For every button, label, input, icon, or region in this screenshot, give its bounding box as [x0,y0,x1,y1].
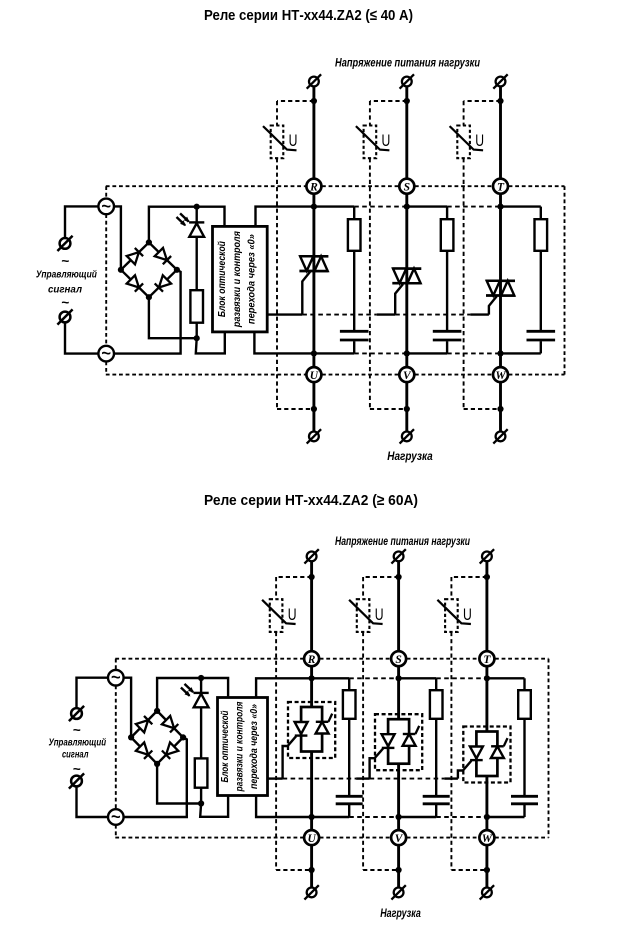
wire resistor to capacitor T [523,719,525,795]
node T input junction [484,574,490,580]
wire dashed varistor to output junction U [276,869,312,871]
thyristor module VS2 dashed box [375,714,422,770]
ac coupling circle top [108,670,124,686]
thyristor module VS2 loop [388,719,409,764]
svg-text:U: U [475,131,484,150]
svg-text:U: U [289,131,298,150]
node S snubber top junction [404,204,410,210]
wire bridge bottom to block [157,764,201,804]
wire resistor to capacitor R [348,719,350,795]
node R snubber top junction [311,204,317,210]
triac VS2 bottom bar [392,282,421,285]
terminal U load [307,888,317,898]
wire dashed varistor to output junction V [370,408,407,410]
wire snubber top branch R [314,205,354,207]
wire dashed top bus [436,677,487,679]
wire LED to resistor [200,707,202,758]
node W output junction [484,867,490,873]
diode VD2 (top-right arm) [162,716,174,728]
LED optocoupler diode [193,692,208,694]
node LED anode junction [194,204,200,210]
terminal circle T [493,179,508,194]
wire resistor to capacitor T [540,251,542,330]
triac VS1 left triangle [300,256,313,271]
varistor RU x=363 [357,599,370,632]
triac VS2 top bar [392,267,421,270]
node S input junction [404,98,410,104]
wire dashed bottom bus [436,816,487,818]
thyristor VS2a cathode bar [382,747,395,749]
svg-text:U: U [463,605,472,624]
node W snubber bottom junction [497,350,503,356]
wire dashed junction to varistor S [363,576,399,578]
wire dashed junction to varistor T [451,576,487,578]
node V snubber bottom junction [404,350,410,356]
thyristor VS3a triangle [470,747,483,759]
thyristor module VS3 dashed box [463,727,510,783]
svg-text:R: R [307,654,316,666]
varistor RU x=276 [270,599,283,632]
wire dashed varistor to output junction V [363,869,399,871]
wire gate drive segment T [470,313,489,315]
wire T phase line [499,194,502,367]
wire resistor to capacitor R [353,251,355,330]
triac VS1 right triangle [315,256,328,271]
wire dashed top bus [447,206,500,208]
LED optocoupler diode [189,221,204,223]
capacitor snubber T [527,330,556,333]
svg-text:~: ~ [101,197,111,215]
svg-text:V: V [395,833,404,845]
wire V output drop [405,382,408,431]
svg-text:развязки и контроля: развязки и контроля [232,231,243,328]
wire resistor to bottom node [200,788,202,804]
node bridge AC left [128,734,134,740]
opto control block Блок оптической развязки [217,697,267,795]
svg-text:Блок оптической: Блок оптической [220,710,231,782]
terminal U load [309,432,319,442]
svg-text:W: W [495,370,506,382]
node T input junction [497,98,503,104]
svg-text:сигнал: сигнал [62,750,89,761]
svg-text:Нагрузка: Нагрузка [387,451,433,463]
triac VS3 top bar [486,279,515,282]
svg-text:~: ~ [73,761,81,776]
wire ac bottom to bridge right corner [124,737,187,817]
wire S phase line [405,194,408,367]
thyristor VS3b anode bar [491,745,504,747]
wire resistor to capacitor S [435,719,437,795]
node V snubber bottom junction [395,814,401,820]
wire gate drive segment S [377,313,396,315]
node bridge DC bottom [154,761,160,767]
wire U output drop [310,845,313,887]
thyristor VS3b triangle [491,746,504,758]
wire T input drop [499,86,502,178]
svg-text:Реле серии НТ-хх44.ZA2 (≤ 40 А: Реле серии НТ-хх44.ZA2 (≤ 40 А) [204,7,413,24]
ac coupling circle top [98,199,114,215]
wire dashed junction to varistor T [464,100,501,102]
wire dashed varistor branch x=370 [369,101,371,126]
wire dashed varistor branch x=363 [362,577,364,599]
wire dashed bottom bus [447,352,500,354]
svg-text:U: U [288,605,297,624]
diode VD1 (left-top arm) [136,720,148,732]
svg-text:U: U [310,370,319,382]
svg-text:Напряжение питания нагрузки: Напряжение питания нагрузки [335,536,470,548]
svg-text:Управляющий: Управляющий [49,737,107,748]
thyristor module VS3 loop [476,732,497,777]
svg-text:перехода через «0»: перехода через «0» [246,234,257,324]
terminal T supply [496,77,506,87]
ac coupling circle bottom [108,809,124,825]
wire dashed varistor to output junction U [277,408,314,410]
wire dashed varistor branch x=451 [450,577,452,599]
wire capacitor to bottom bus T [523,805,525,817]
wire dashed varistor branch x=277 [276,101,278,126]
terminal S supply [394,552,404,562]
terminal R supply [307,552,317,562]
capacitor snubber S [423,795,450,798]
node T snubber top junction [484,675,490,681]
node bridge DC top [146,239,152,245]
diode VD2 (top-right arm) [155,248,167,260]
thyristor VS1b anode bar [316,721,329,723]
diode VD3 (left-bottom arm) [127,275,139,287]
svg-text:~: ~ [73,722,81,737]
wire T input drop [485,561,488,651]
thyristor VS1a cathode bar [295,734,308,736]
node LED cathode junction [198,800,204,806]
wire LED to resistor [196,237,198,290]
node R input junction [311,98,317,104]
svg-text:U: U [375,605,384,624]
wire control input 1 [76,678,108,708]
svg-text:Напряжение питания нагрузки: Напряжение питания нагрузки [335,57,480,69]
terminal control input 2 [60,312,71,323]
bridge rectifier VD1-VD4 frame [121,242,177,297]
terminal V load [402,432,412,442]
wire resistor to capacitor S [446,251,448,330]
wire snubber top branch T [487,677,525,679]
resistor snubber S [430,690,443,719]
node bridge DC top [154,708,160,714]
wire capacitor to bottom bus S [446,341,448,353]
wire R phase line [310,666,313,707]
wire snubber top branch R [312,677,350,679]
svg-text:S: S [395,654,401,666]
wire R phase line [312,194,315,367]
wire dashed bottom bus [354,352,407,354]
triac VS2 left triangle [393,269,406,284]
relay enclosure dashed box left edge [115,659,117,670]
wire thyristor VS1b gate stub [328,714,332,722]
wire block top right pin to phase R [256,678,312,697]
thyristor module VS1 loop [301,707,322,752]
relay enclosure dashed box top edge [115,658,303,660]
triac VS2 right triangle [407,269,420,284]
wire gate drive segment T [444,777,458,779]
triac VS3 left triangle [487,281,500,296]
terminal circle V [399,367,414,382]
wire S input drop [405,86,408,178]
relay enclosure dashed box left edge [105,186,107,198]
wire U output drop [312,382,315,431]
wire dashed junction to varistor R [276,576,312,578]
wire bridge top to block [157,678,228,711]
relay enclosure dashed box right edge [564,186,566,374]
triac VS3 right triangle [501,281,514,296]
LED optocoupler arrows [180,213,189,221]
terminal circle R [304,651,319,666]
terminal circle U [306,367,321,382]
svg-text:сигнал: сигнал [48,284,83,295]
wire thyristor VS3a gate [458,761,472,779]
wire dashed varistor to output junction W [464,408,501,410]
diode VD3 (left-bottom arm) [136,742,148,754]
node T snubber top junction [497,204,503,210]
wire S input drop [397,561,400,651]
wire snubber top branch S [407,205,447,207]
terminal control input 2 [71,776,82,787]
node bridge DC bottom [146,294,152,300]
terminal circle W [493,367,508,382]
wire S phase line [397,666,400,719]
node LED anode junction [198,675,204,681]
svg-text:Нагрузка: Нагрузка [380,908,421,920]
relay enclosure dashed box bottom edge [115,837,303,839]
wire block bottom right pin to bottom bus [254,332,314,354]
resistor snubber R [348,219,361,251]
wire dashed top bus [354,206,407,208]
wire block top right pin to phase R [256,207,314,227]
wire capacitor to bottom bus R [353,341,355,353]
wire control input 1 [65,206,98,238]
bridge rectifier VD1-VD4 frame [131,711,183,764]
wire V output drop [397,845,400,887]
capacitor snubber S [433,330,462,333]
triac VS1 bottom bar [299,270,328,273]
thyristor VS2b triangle [403,734,416,746]
svg-text:~: ~ [61,295,69,310]
wire ac top to bridge left corner [124,678,132,736]
resistor snubber T [518,690,531,719]
thyristor module VS1 dashed box [288,702,335,758]
terminal circle R [306,179,321,194]
wire control input 2 [65,322,98,353]
terminal S supply [402,77,412,87]
wire gate drive segment S [356,777,370,779]
node R input junction [308,574,314,580]
thyristor VS1a triangle [295,722,308,734]
node S snubber top junction [395,675,401,681]
wire ac top to bridge left corner [114,206,121,267]
node bridge AC right [180,734,186,740]
wire control input 2 [76,786,108,817]
terminal circle S [391,651,406,666]
wire capacitor to bottom bus R [348,805,350,817]
wire capacitor to bottom bus S [435,805,437,817]
terminal circle T [479,651,494,666]
capacitor snubber R [340,330,369,333]
wire R input drop [312,86,315,178]
resistor control branch [190,290,203,323]
wire LED branch top [196,206,198,222]
wire R input drop [310,561,313,651]
svg-text:V: V [403,370,412,382]
capacitor snubber T [511,795,538,798]
terminal W load [496,432,506,442]
wire thyristor VS2b gate stub [415,726,419,734]
svg-text:Блок оптической: Блок оптической [217,241,228,317]
thyristor VS2b anode bar [403,733,416,735]
node U output junction [308,867,314,873]
relay enclosure dashed box bottom edge [106,374,306,376]
svg-text:R: R [309,182,318,194]
capacitor snubber R [336,795,363,798]
wire ac bottom to bridge right corner [114,270,181,354]
svg-text:~: ~ [61,254,69,269]
diode VD1 (left-top arm) [127,252,139,264]
triac VS1 top bar [299,255,328,258]
wire dashed varistor branch x=464 [463,101,465,126]
relay enclosure dashed box top edge [106,185,306,187]
svg-text:U: U [307,833,316,845]
diode VD4 (right-bottom arm) [159,275,171,287]
svg-text:T: T [497,182,505,194]
wire dashed gate bus [370,778,445,780]
wire thyristor VS3b gate stub [504,738,508,746]
wire dashed varistor to output junction W [451,869,487,871]
opto control block Блок оптической развязки [213,226,268,332]
node U output junction [311,406,317,412]
svg-text:перехода через «0»: перехода через «0» [249,704,260,789]
wire thyristor VS1a gate [283,736,297,778]
ac coupling circle bottom [98,346,114,362]
wire snubber top branch T [501,205,541,207]
terminal W load [482,888,492,898]
varistor RU x=370 [364,126,377,159]
svg-text:Реле серии НТ-хх44.ZA2 (≥ 60А): Реле серии НТ-хх44.ZA2 (≥ 60А) [204,492,418,509]
varistor RU x=451 [445,599,458,632]
wire dashed top bus [349,677,398,679]
diode VD4 (right-bottom arm) [166,742,178,754]
svg-text:U: U [382,131,391,150]
terminal V load [394,888,404,898]
wire block bottom right pin to bottom bus [256,795,312,817]
thyristor VS1b triangle [316,722,329,734]
wire snubber top branch S [399,677,437,679]
wire dashed gate bus [395,314,470,316]
node bridge AC right [174,267,180,273]
thyristor VS2a triangle [382,734,395,746]
wire dashed varistor branch x=276 [275,577,277,599]
varistor RU x=464 [457,126,470,159]
terminal T supply [482,552,492,562]
node W snubber bottom junction [484,814,490,820]
svg-text:Управляющий: Управляющий [36,269,97,280]
node LED cathode junction [194,335,200,341]
varistor RU x=277 [271,125,284,158]
wire capacitor to bottom bus T [540,341,542,353]
wire bridge bottom to block [149,297,197,338]
resistor snubber T [535,219,548,251]
node U snubber bottom junction [308,814,314,820]
terminal circle W [479,830,494,845]
node bridge AC left [118,267,124,273]
wire triac VS2 gate [395,284,403,315]
wire gate drive segment R [267,777,282,779]
wire dashed junction to varistor R [277,100,314,102]
resistor control branch [195,758,208,787]
svg-text:T: T [483,654,491,666]
svg-text:W: W [482,833,493,845]
wire W output drop [499,382,502,431]
wire dashed gate bus [302,314,376,316]
svg-text:~: ~ [111,669,121,687]
terminal circle U [304,830,319,845]
node V output junction [404,406,410,412]
resistor snubber R [343,690,356,719]
node V output junction [395,867,401,873]
thyristor VS3a cathode bar [470,759,483,761]
wire resistor to bottom node [196,323,198,339]
terminal R supply [309,77,319,87]
wire T phase line [485,666,488,731]
terminal control input 1 [71,708,82,719]
node S input junction [395,574,401,580]
wire dashed gate bus [283,778,357,780]
svg-text:развязки и контроля: развязки и контроля [234,701,245,792]
svg-text:S: S [404,182,410,194]
terminal control input 1 [60,238,71,249]
wire gate drive segment R [267,313,302,315]
wire dashed junction to varistor S [370,100,407,102]
triac VS3 bottom bar [486,294,515,297]
terminal circle S [399,179,414,194]
wire triac VS3 gate [489,296,497,314]
LED optocoupler arrows [184,684,193,692]
node U snubber bottom junction [311,350,317,356]
terminal circle V [391,830,406,845]
node W output junction [497,406,503,412]
wire triac VS1 gate [302,272,310,315]
svg-text:~: ~ [111,808,121,826]
resistor snubber S [441,219,454,251]
wire W output drop [485,845,488,887]
relay enclosure dashed box right edge [547,659,549,838]
node R snubber top junction [308,675,314,681]
wire LED branch top [200,678,202,693]
wire dashed bottom bus [349,816,398,818]
svg-text:~: ~ [101,345,111,363]
wire thyristor VS2a gate [370,749,384,779]
wire bridge top to block [149,207,225,243]
